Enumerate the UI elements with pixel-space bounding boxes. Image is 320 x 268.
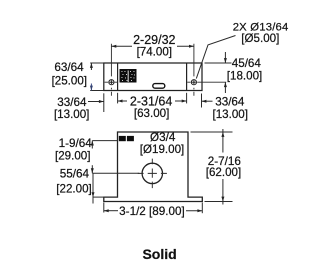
63/64 extension lines left of top view — [90, 62, 104, 64]
svg-text:[25.00]: [25.00] — [52, 75, 87, 88]
dim 2-29/32 [74.00] line — [111, 45, 132, 47]
big hole front view — [142, 163, 162, 183]
leader line 55/64 hole centerline — [92, 172, 139, 174]
svg-text:3-1/2 [89.00]: 3-1/2 [89.00] — [119, 205, 185, 218]
svg-text:45/64: 45/64 — [232, 57, 262, 70]
svg-text:33/64: 33/64 — [215, 96, 245, 109]
big hole horizontal centerline — [138, 172, 167, 174]
63/64 bottom arrow — [90, 84, 92, 91]
dim 89.00 left extension — [103, 203, 105, 213]
svg-text:[22.00]: [22.00] — [56, 183, 91, 196]
right hole horizontal centerline + 18.00 extension — [187, 81, 226, 83]
svg-text:33/64: 33/64 — [57, 96, 87, 109]
right 33/64 extension line — [201, 94, 203, 108]
dim 89.00 line — [104, 210, 118, 212]
svg-text:[Ø5.00]: [Ø5.00] — [241, 32, 279, 45]
svg-text:Solid: Solid — [142, 246, 176, 262]
leader line 1-9/64 to body edge — [92, 140, 117, 142]
front view outline — [104, 132, 203, 202]
svg-text:[62.00]: [62.00] — [206, 166, 241, 179]
right mounting hole — [191, 80, 196, 85]
svg-text:[63.00]: [63.00] — [134, 107, 169, 120]
svg-text:[18.00]: [18.00] — [227, 70, 262, 83]
left 33/64 arrow — [88, 101, 104, 103]
svg-text:[Ø19.00]: [Ø19.00] — [140, 143, 184, 156]
dim 62.00 top extension — [191, 131, 233, 133]
top view left body edge line — [117, 63, 119, 91]
dim 29.00 arrows — [91, 141, 93, 149]
right hole vertical centerline / extension to dim — [193, 44, 195, 96]
svg-text:[74.00]: [74.00] — [137, 46, 172, 59]
dim 62.00 line top segment — [222, 129, 224, 153]
45/64 arrows — [224, 52, 226, 63]
dim 62.00 bottom extension — [205, 201, 233, 203]
step extension line left — [93, 196, 104, 198]
svg-text:[13.00]: [13.00] — [54, 108, 89, 121]
big hole vertical centerline — [151, 159, 153, 189]
dim 22.00 line and arrows — [92, 173, 94, 203]
left hole center cross — [110, 80, 114, 84]
dim 89.00 right extension — [201, 203, 203, 214]
left hole vertical centerline / extension to dim — [110, 44, 112, 96]
left mounting hole — [109, 80, 114, 85]
svg-text:[13.00]: [13.00] — [213, 108, 248, 121]
slot on top view bottom edge — [153, 84, 165, 89]
45/64 top extension line right of top view — [205, 62, 232, 64]
svg-text:2-31/64: 2-31/64 — [130, 94, 172, 108]
left hole horizontal centerline — [105, 81, 118, 83]
svg-text:55/64: 55/64 — [60, 168, 90, 181]
label on top view — [120, 69, 137, 83]
top view body outline — [104, 63, 202, 91]
dim 62.00 line bottom segment — [222, 179, 224, 205]
dim 2-31/64 [63.00] line — [118, 100, 127, 102]
terminal block 2 on front view — [127, 136, 134, 141]
svg-text:1-9/64: 1-9/64 — [59, 137, 93, 150]
svg-text:[29.00]: [29.00] — [55, 149, 90, 162]
svg-text:63/64: 63/64 — [54, 61, 84, 74]
right hole center cross — [192, 80, 196, 84]
svg-text:2-29/32: 2-29/32 — [133, 33, 175, 47]
63/64 top arrow — [90, 63, 92, 70]
leader for 2X holes callout — [196, 36, 235, 79]
top view right body edge line — [186, 63, 188, 91]
left 33/64 extension line — [103, 93, 105, 112]
dim 63.00 extension lines below body — [117, 93, 119, 104]
right 33/64 arrow — [202, 100, 213, 102]
terminal block 1 on front view — [119, 136, 126, 141]
